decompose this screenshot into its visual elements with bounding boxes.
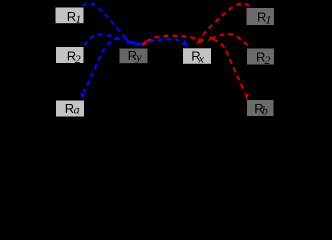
svg-text:1: 1 xyxy=(75,12,81,26)
svg-text:1: 1 xyxy=(265,13,271,27)
wire blue mapping arc from R1 left to Ry xyxy=(82,3,127,40)
resistor R1 (right circuit, dark box) xyxy=(247,8,275,27)
svg-text:x: x xyxy=(198,51,205,65)
resistor R1 (left circuit) xyxy=(56,8,84,27)
resistor Ra (left circuit) xyxy=(56,101,84,117)
resistor R2 (right circuit, dark box) xyxy=(247,49,274,67)
resistor Rb (right circuit, dark box) xyxy=(247,100,274,117)
resistor Ry (left circuit equivalent, dark box) xyxy=(120,48,148,64)
wire blue mapping arc down to Ra with arrowhead xyxy=(84,38,120,93)
svg-text:2: 2 xyxy=(75,52,81,66)
resistor R2 (left circuit) xyxy=(56,47,84,66)
svg-text:a: a xyxy=(74,103,80,117)
svg-text:y: y xyxy=(135,50,142,64)
wire blue long mapping arc from Ry region to Rx with arrowheads xyxy=(127,41,141,44)
resistor Rx (right circuit equivalent, light box) xyxy=(183,48,211,65)
svg-text:2: 2 xyxy=(265,53,271,67)
wire red mapping arc from R1 right to Rx xyxy=(200,3,250,39)
svg-text:b: b xyxy=(262,103,268,117)
wire red mapping arc from R2 right to Rx xyxy=(211,34,248,46)
wire red long mapping arc from Rx region to Ry with arrowhead xyxy=(144,36,205,44)
wire blue mapping arc from R2 left to Ry xyxy=(84,34,121,45)
wire red mapping arc down to Rb with arrowhead xyxy=(213,40,245,93)
